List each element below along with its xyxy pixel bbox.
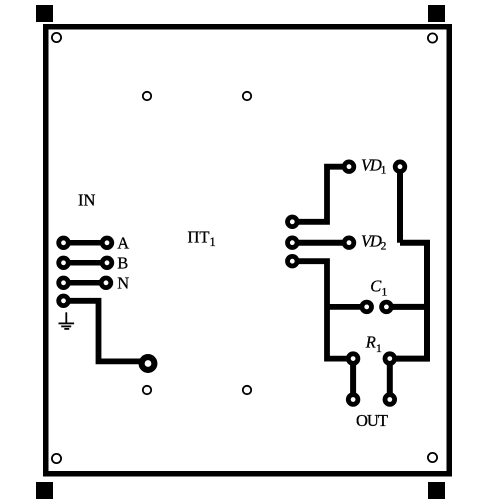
svg-text:ПТ1: ПТ1 bbox=[188, 228, 216, 249]
svg-text:A: A bbox=[117, 234, 129, 253]
svg-text:R1: R1 bbox=[365, 332, 382, 355]
svg-text:VD2: VD2 bbox=[361, 232, 387, 253]
svg-text:C1: C1 bbox=[370, 277, 387, 299]
svg-text:N: N bbox=[117, 274, 129, 293]
svg-text:OUT: OUT bbox=[356, 411, 388, 430]
svg-text:B: B bbox=[117, 254, 128, 273]
svg-text:IN: IN bbox=[78, 190, 95, 209]
svg-text:VD1: VD1 bbox=[361, 156, 387, 177]
